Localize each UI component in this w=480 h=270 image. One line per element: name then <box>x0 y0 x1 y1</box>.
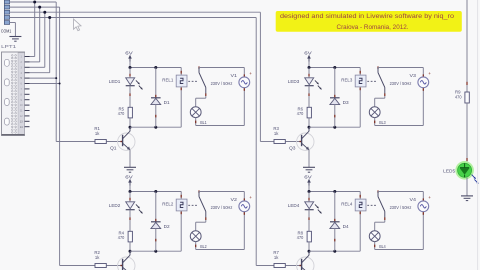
svg-text:Q3: Q3 <box>289 145 296 150</box>
ground (COM1) <box>9 37 21 42</box>
node rail-junction LED <box>129 66 132 69</box>
node diode bottom junction <box>154 126 157 129</box>
LED LED2 <box>109 192 143 232</box>
svg-text:6V: 6V <box>125 175 133 180</box>
wire: top feed to R9 <box>466 0 468 92</box>
diode D3 flyback <box>330 68 350 128</box>
node junction net1 <box>33 1 36 4</box>
resistor R5 470 <box>118 107 133 118</box>
wire: supply to rail <box>308 62 310 68</box>
transistor Q4 NPN <box>289 251 314 270</box>
wire: drop to port pin2 <box>30 7 40 62</box>
wire: +6V rail <box>309 191 360 193</box>
wire: drop to port pin4 <box>30 18 50 73</box>
ground (LED5) <box>461 196 473 201</box>
window edge line <box>477 0 479 270</box>
power +6V supply arrow (block 1) <box>125 51 133 62</box>
diode D4 flyback <box>330 192 350 252</box>
ground symbol (block 3) <box>303 167 315 172</box>
node rail-junction LED <box>308 190 311 193</box>
diode D2 flyback <box>151 192 171 252</box>
svg-text:470: 470 <box>118 235 125 240</box>
node rail-junction diode <box>154 190 157 193</box>
wire: resistor to collector node <box>308 242 310 251</box>
svg-text:LED2: LED2 <box>109 203 121 208</box>
AC source V2 230V/50Hz <box>231 195 253 249</box>
svg-text:V1: V1 <box>231 73 238 78</box>
node diode bottom junction <box>154 250 157 253</box>
wire: port pin5 stub <box>30 77 57 79</box>
svg-text:230V / 50Hz: 230V / 50Hz <box>211 81 233 86</box>
LED LED1 <box>109 68 143 108</box>
connector COM1 serial port <box>1 0 12 33</box>
relay contact switch (block 3) <box>378 66 385 96</box>
wire: resistor to collector node <box>308 118 310 127</box>
svg-text:REL4: REL4 <box>341 202 353 207</box>
resistor R6 470 <box>297 107 312 118</box>
wire: contact to lamp <box>196 220 206 231</box>
svg-text:D1: D1 <box>164 100 171 105</box>
svg-text:470: 470 <box>455 95 462 100</box>
lamp BL1 <box>190 107 207 126</box>
wire: contact to lamp <box>196 96 206 107</box>
wire: lamp return to AC source <box>196 249 245 251</box>
wire: COM1 pin 5 to ground <box>10 23 16 37</box>
node junction net3 <box>43 11 46 14</box>
connector LPT1 parallel port <box>1 44 29 136</box>
svg-text:230V / 50Hz: 230V / 50Hz <box>390 81 412 86</box>
svg-text:BL1: BL1 <box>200 120 207 125</box>
wire: resistor to collector node <box>129 242 131 251</box>
svg-text:designed and simulated in Live: designed and simulated in Livewire softw… <box>280 13 454 20</box>
svg-text:V3: V3 <box>410 73 417 78</box>
svg-text:BL2: BL2 <box>200 244 207 249</box>
relay link dashed <box>367 80 377 82</box>
svg-text:230V / 50Hz: 230V / 50Hz <box>211 205 233 210</box>
power +6V supply arrow (block 2) <box>125 175 133 186</box>
node collector junction <box>129 250 132 253</box>
svg-text:D4: D4 <box>343 224 350 229</box>
relay contact switch (block 4) <box>378 190 385 220</box>
svg-text:+: + <box>428 195 431 200</box>
wire: contact to AC source top <box>199 192 244 202</box>
svg-text:BL3: BL3 <box>379 120 386 125</box>
svg-text:D3: D3 <box>343 100 350 105</box>
wire: emitter to ground <box>129 150 131 167</box>
svg-text:LED5: LED5 <box>443 168 456 173</box>
wire: lamp return to AC source <box>375 249 424 251</box>
svg-text:Q1: Q1 <box>110 145 117 150</box>
wire: port pin6 stub <box>30 83 60 85</box>
AC source V1 230V/50Hz <box>231 71 253 125</box>
wire: collector node to relay coil bottom <box>309 126 360 128</box>
wire: contact to AC source top <box>199 68 244 78</box>
svg-text:LED1: LED1 <box>109 79 121 84</box>
label 230V/50Hz <box>390 205 412 210</box>
wire: +6V rail <box>309 67 360 69</box>
resistor R4 470 <box>118 231 133 242</box>
relay contact switch (block 1) <box>199 66 206 96</box>
wire: lamp return to AC source <box>375 125 424 127</box>
wire: base resistor to transistor base <box>107 265 123 266</box>
svg-text:REL3: REL3 <box>341 78 353 83</box>
wire net 3: COM1 pin3 long wire to R3 <box>10 12 274 141</box>
resistor R9 470 <box>455 90 469 104</box>
node junction pin5 <box>55 77 57 79</box>
svg-text:V2: V2 <box>231 197 238 202</box>
wire: supply to rail <box>308 186 310 192</box>
wire: resistor to collector node <box>129 118 131 127</box>
svg-text:+: + <box>249 195 252 200</box>
svg-text:REL1: REL1 <box>162 78 174 83</box>
relay coil REL3 <box>341 68 366 128</box>
svg-text:V4: V4 <box>410 197 417 202</box>
svg-text:REL2: REL2 <box>162 202 174 207</box>
ground symbol (block 1) <box>124 167 136 172</box>
lamp BL3 <box>369 107 386 126</box>
AC source V4 230V/50Hz <box>410 195 432 249</box>
svg-text:+: + <box>428 71 431 76</box>
transistor Q1 NPN <box>110 127 135 150</box>
wire: +6V rail <box>130 191 181 193</box>
wire: base resistor to transistor base <box>286 265 302 266</box>
node collector junction <box>129 126 132 129</box>
LED D5 green lit <box>443 161 478 184</box>
wire: emitter to ground <box>308 150 310 167</box>
svg-text:Craiova - Romania, 2012.: Craiova - Romania, 2012. <box>337 24 409 31</box>
relay link dashed <box>188 204 198 206</box>
resistor R8 470 <box>297 231 312 242</box>
wire net 1: COM1 pin1 to R1 drop <box>10 2 95 142</box>
node diode bottom junction <box>333 126 336 129</box>
resistor R7 1k <box>273 250 285 268</box>
transistor Q2 NPN <box>110 251 135 270</box>
svg-text:230V / 50Hz: 230V / 50Hz <box>390 205 412 210</box>
relay link dashed <box>188 80 198 82</box>
svg-text:D2: D2 <box>164 224 171 229</box>
relay coil REL2 <box>162 192 187 252</box>
wire: drop to port pin3 <box>30 12 45 67</box>
svg-text:COM1: COM1 <box>1 28 12 33</box>
node collector junction <box>308 126 311 129</box>
LED LED4 <box>288 192 322 232</box>
wire: R9 to LED5 <box>466 103 468 163</box>
resistor R1 1k <box>94 126 106 144</box>
banner yellow note <box>276 11 462 32</box>
node junction net2 <box>38 6 41 9</box>
wire: contact to lamp <box>375 220 385 231</box>
diode D1 flyback <box>151 68 171 128</box>
wire: base resistor to transistor base <box>286 141 302 142</box>
svg-text:470: 470 <box>118 111 125 116</box>
wire: drop to port pin1 <box>30 2 35 57</box>
label 230V/50Hz <box>211 205 233 210</box>
node collector junction <box>308 250 311 253</box>
power +6V supply arrow (block 4) <box>304 175 312 186</box>
node rail-junction diode <box>154 66 157 69</box>
relay contact switch (block 2) <box>199 190 206 220</box>
svg-text:6V: 6V <box>304 175 312 180</box>
node junction net4 <box>48 16 51 19</box>
lamp BL2 <box>190 231 207 250</box>
wire: base resistor to transistor base <box>107 141 123 142</box>
svg-text:6V: 6V <box>304 51 312 56</box>
lamp BL4 <box>369 231 386 250</box>
wire: collector node to relay coil bottom <box>130 250 181 252</box>
LED LED3 <box>288 68 322 108</box>
node diode bottom junction <box>333 250 336 253</box>
wire: supply to rail <box>129 186 131 192</box>
node rail-junction LED <box>129 190 132 193</box>
relay coil REL1 <box>162 68 187 128</box>
resistor R2 1k <box>94 250 106 268</box>
relay coil REL4 <box>341 192 366 252</box>
svg-text:LPT1: LPT1 <box>1 44 17 49</box>
node rail-junction diode <box>333 66 336 69</box>
mouse cursor <box>74 19 81 31</box>
relay link dashed <box>367 204 377 206</box>
node rail-junction LED <box>308 66 311 69</box>
wire: collector node to relay coil bottom <box>130 126 181 128</box>
node junction pin6 <box>59 83 61 85</box>
svg-text:LED3: LED3 <box>288 79 300 84</box>
wire: +6V rail <box>130 67 181 69</box>
label 230V/50Hz <box>211 81 233 86</box>
wire: LED5 to ground <box>466 177 468 195</box>
wire: lamp return to AC source <box>196 125 245 127</box>
wire: supply to rail <box>129 62 131 68</box>
wire: collector node to relay coil bottom <box>309 250 360 252</box>
svg-text:+: + <box>249 71 252 76</box>
wire net 4: COM1 pin4 long wire to R7 <box>10 18 274 266</box>
AC source V3 230V/50Hz <box>410 71 432 125</box>
transistor Q3 NPN <box>289 127 314 150</box>
svg-text:470: 470 <box>297 235 304 240</box>
svg-text:BL4: BL4 <box>379 244 386 249</box>
node rail-junction diode <box>333 190 336 193</box>
svg-text:LED4: LED4 <box>288 203 300 208</box>
power +6V supply arrow (block 3) <box>304 51 312 62</box>
svg-text:470: 470 <box>297 111 304 116</box>
wire: contact to AC source top <box>378 192 423 202</box>
svg-text:6V: 6V <box>125 51 133 56</box>
wire net 2: COM1 pin2 to R2 drop <box>10 7 95 265</box>
wire: contact to lamp <box>375 96 385 107</box>
wire: contact to AC source top <box>378 68 423 78</box>
label 230V/50Hz <box>390 81 412 86</box>
resistor R3 1k <box>273 126 285 144</box>
